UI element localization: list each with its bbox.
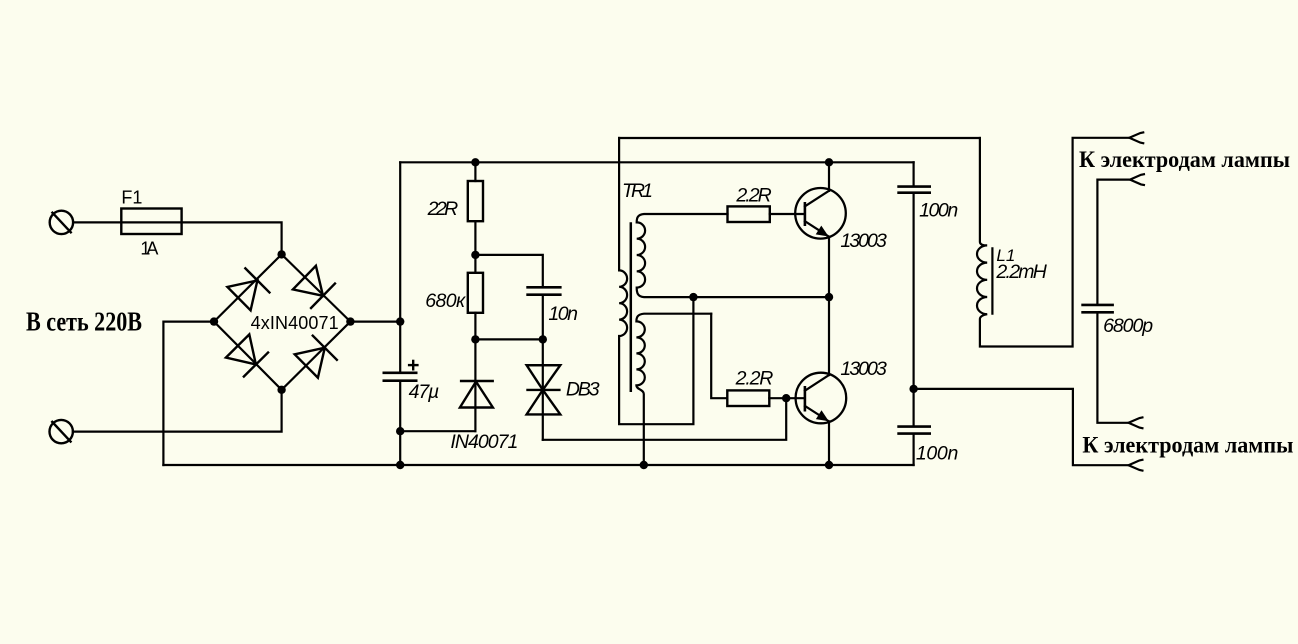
diode D3 (bridge bottom-left): [226, 334, 269, 377]
svg-text:2.2R: 2.2R: [735, 368, 774, 390]
diode D4 (bridge bottom-right): [295, 335, 338, 378]
svg-text:DB3: DB3: [566, 378, 600, 400]
wire bridge edge top-right: [282, 254, 351, 321]
svg-text:TR1: TR1: [622, 180, 653, 202]
terminal X1: [50, 211, 73, 234]
wire R4 to Q2 base: [769, 397, 805, 399]
arrow lamp bottom pin2: [1129, 460, 1144, 471]
transformer TR1 secondary bottom winding: [636, 314, 711, 465]
diode D5 IN40071: [460, 381, 494, 408]
capacitor C2 10n plates: [526, 287, 561, 294]
wire node to diode D5: [474, 339, 476, 431]
junction node dots: [210, 158, 918, 469]
wire C2 bottom to node: [542, 296, 544, 340]
wire bridge edge top-left: [214, 254, 282, 321]
wire node to C4: [912, 389, 914, 426]
wire bridge edge bottom-right: [282, 322, 351, 390]
capacitor C5 6800p plates: [1081, 305, 1114, 312]
wire bottom rail: [163, 464, 913, 466]
wire D5 to C1 bottom node: [400, 430, 475, 432]
wire bridge edge bottom-left: [214, 322, 282, 390]
wire top rail: [400, 161, 913, 163]
wire node to node (R2 bottom to C2 bottom): [475, 338, 542, 340]
wire Q2 emitter to rail: [828, 421, 830, 465]
resistor R3 2.2R (top): [728, 206, 770, 222]
diode D1 (bridge top-left): [227, 268, 270, 311]
wire R2 to node: [474, 313, 476, 340]
inductor L1 core bar: [991, 247, 993, 315]
svg-text:22R: 22R: [427, 198, 459, 220]
fuse F1: [121, 209, 181, 235]
inductor L1 with lamp wire: [977, 138, 1129, 347]
capacitor C4 100n bottom plates: [897, 427, 931, 434]
wire bridge left vertex to left down rail: [163, 322, 214, 465]
svg-text:4xIN40071: 4xIN40071: [251, 313, 339, 333]
wire Q1 collector to rail: [828, 162, 830, 191]
transistor Q2 13003: [796, 373, 847, 424]
wire node to diac: [542, 339, 544, 439]
svg-text:В сеть 220В: В сеть 220В: [26, 306, 142, 336]
svg-text:К электродам лампы: К электродам лампы: [1079, 147, 1290, 172]
arrow lamp top pin2: [1130, 174, 1145, 185]
svg-text:100n: 100n: [919, 199, 958, 221]
resistor R4 2.2R (bottom): [727, 390, 769, 406]
wire bus to cap C1: [399, 322, 401, 372]
wire node to C2: [475, 255, 542, 286]
svg-text:2.2mH: 2.2mH: [995, 261, 1047, 283]
wire C3 to node: [912, 194, 914, 389]
arrow lamp bottom pin1: [1129, 417, 1144, 428]
wire midpoint node to transformer: [693, 296, 829, 298]
diode D2 (bridge top-right): [293, 266, 336, 309]
transformer TR1 core: [630, 222, 633, 392]
resistor R2 680к: [468, 273, 483, 313]
capacitor C3 100n top plates: [897, 187, 931, 193]
transistor Q1 13003: [795, 188, 846, 239]
wire C1 bottom to rail: [399, 382, 401, 465]
wire lamp pin2 to C5: [1097, 180, 1130, 305]
wire X2 to bridge bottom vertex: [73, 390, 282, 432]
wire rail corner down to C3: [912, 162, 914, 186]
wire DC+ bus vertical top: [399, 162, 401, 321]
wire Q1 emitter to midpoint: [828, 237, 830, 297]
wire diac bottom to Q2 base: [543, 398, 786, 440]
svg-text:2.2R: 2.2R: [735, 185, 771, 207]
wire rail to R1: [474, 162, 476, 181]
svg-text:680к: 680к: [425, 290, 466, 312]
svg-text:6800p: 6800p: [1103, 315, 1153, 337]
transformer TR1 secondary top winding: [637, 214, 728, 297]
wire R1 to node: [474, 221, 476, 255]
C1 polarity plus sign: [408, 360, 419, 371]
resistor R1 22R: [468, 181, 483, 221]
transformer TR1 primary winding: [619, 138, 693, 424]
wire top line from transformer to L1: [619, 137, 980, 139]
svg-text:К электродам лампы: К электродам лампы: [1082, 433, 1293, 458]
wire C5 to lamp bottom pin1: [1097, 313, 1128, 422]
svg-text:47µ: 47µ: [409, 381, 440, 403]
wire cap midpoint node to lamp bottom pin2: [914, 389, 1129, 465]
svg-text:13003: 13003: [840, 230, 887, 252]
arrow lamp top pin1: [1129, 132, 1144, 143]
svg-text:1A: 1A: [140, 239, 158, 259]
diac DB3: [526, 365, 560, 414]
wire midpoint to Q2 collector: [828, 297, 830, 375]
wire C4 to rail: [912, 435, 914, 465]
wire X1 to fuse to bridge top: [73, 222, 282, 254]
wire winding to R4: [711, 314, 727, 399]
wire bridge right vertex to DC bus: [350, 321, 400, 323]
svg-text:100n: 100n: [916, 443, 958, 465]
terminal X2: [50, 420, 73, 443]
svg-text:13003: 13003: [840, 358, 887, 380]
svg-text:F1: F1: [121, 187, 142, 207]
svg-text:IN40071: IN40071: [450, 431, 518, 453]
wire node to R2: [474, 255, 476, 273]
svg-text:10n: 10n: [548, 303, 578, 325]
capacitor C1 47µ plates: [383, 373, 418, 381]
wire R3 to Q1 base: [770, 213, 805, 215]
